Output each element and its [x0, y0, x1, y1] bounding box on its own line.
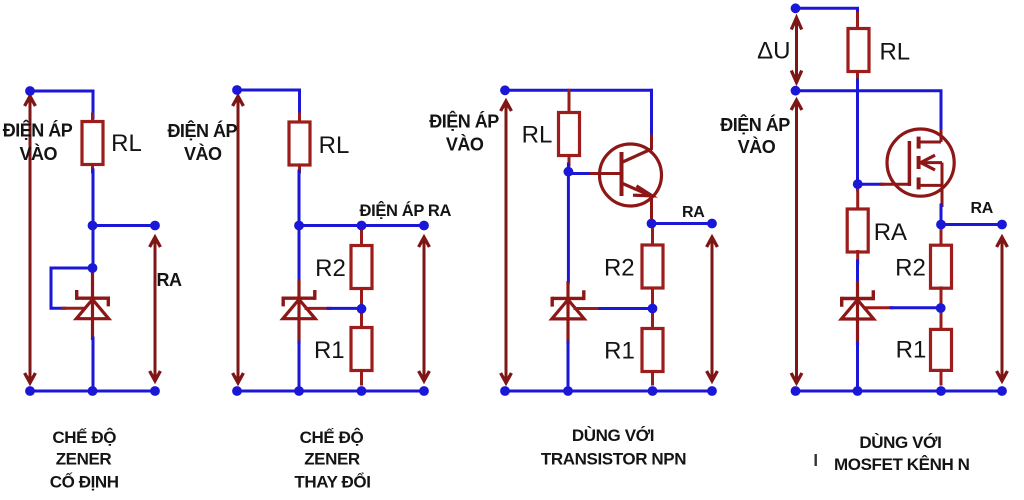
svg-text:RA: RA: [874, 219, 907, 246]
wire lead: RL bottom (circuit 1): [91, 165, 94, 173]
node: circuit 4 R2/R1 junction: [936, 303, 946, 313]
wire stub: zener to divider (circuit 4): [866, 306, 892, 309]
node: circuit 4 top left: [791, 3, 801, 13]
caption line 1 (circuit 3): [572, 426, 654, 445]
svg-text:ĐIỆN ÁP: ĐIỆN ÁP: [720, 114, 790, 135]
node: circuit 4 bottom zener: [853, 386, 863, 396]
wire: gate wire blue part (circuit 4): [858, 183, 882, 186]
wire lead: R2 top (circuit 2): [360, 229, 363, 246]
wire: circuit 1 bottom rail: [30, 390, 155, 393]
svg-text:CHẾ ĐỘ: CHẾ ĐỘ: [300, 428, 364, 447]
wire: divider tap to zener (circuit 4): [891, 306, 941, 309]
node: circuit 3 output right: [707, 219, 717, 229]
resistor R2 (circuit 3): [642, 245, 663, 288]
wire lead: R2 top (circuit 4): [940, 228, 943, 245]
node: circuit 3 input top: [500, 85, 510, 95]
node: circuit 3 emitter/output junction: [647, 219, 657, 229]
wire: circuit 1 top rail: [30, 91, 93, 118]
wire: circuit 4 RA to zener: [856, 261, 859, 282]
label R1 (circuit 4): [896, 336, 927, 363]
wire lead: RL top (circuit 4): [856, 13, 859, 29]
wire: circuit 1 zener to ground rail: [92, 338, 95, 391]
label R2 (circuit 2): [315, 255, 346, 282]
label DIEN AP RA (circuit 2): [360, 201, 452, 220]
svg-text:RL: RL: [111, 130, 142, 157]
wire lead: R1 bottom (circuit 3): [651, 372, 654, 385]
svg-text:VÀO: VÀO: [446, 133, 484, 154]
wire stub: zener to divider (circuit 2): [306, 307, 330, 310]
svg-text:RA: RA: [157, 270, 182, 290]
zener diode D1 (circuit 1): [76, 270, 108, 340]
wire lead: R1 top (circuit 4): [940, 308, 943, 329]
arrow: output voltage span (circuit 2): [419, 237, 430, 381]
svg-text:R1: R1: [896, 336, 927, 363]
arrow: output voltage span (circuit 4): [997, 237, 1008, 381]
caption line 2 (circuit 3): [541, 450, 686, 469]
wire: circuit 2 zener to ground: [298, 342, 301, 391]
label VAO (circuit 2): [184, 143, 222, 164]
svg-text:RA: RA: [970, 200, 993, 217]
label R2 (circuit 3): [604, 255, 635, 282]
resistor RL (circuit 2): [289, 122, 310, 165]
wire lead: RL bottom (circuit 4): [856, 72, 859, 81]
zener diode D1 (circuit 4): [841, 281, 873, 345]
resistor R2 (circuit 4): [931, 245, 952, 288]
wire: divider tap to zener (circuit 2): [328, 307, 362, 310]
wire: circuit 3 collector to rail: [650, 90, 653, 133]
resistor RA (circuit 4): [847, 209, 868, 252]
svg-text:R2: R2: [604, 255, 635, 282]
wire lead: RL bottom (circuit 2): [298, 165, 301, 172]
node: circuit 2 bottom right: [419, 386, 429, 396]
wire: circuit 4 second rail: [796, 91, 942, 131]
label DIEN AP (circuit 2): [167, 120, 237, 141]
node: circuit 2 input top: [232, 85, 242, 95]
resistor R1 (circuit 2): [351, 328, 372, 371]
wire lead: R1 top (circuit 3): [651, 309, 654, 329]
svg-text:VÀO: VÀO: [184, 143, 222, 164]
svg-text:R1: R1: [604, 338, 635, 365]
svg-text:MOSFET KÊNH N: MOSFET KÊNH N: [834, 455, 970, 474]
svg-text:ĐIỆN ÁP RA: ĐIỆN ÁP RA: [360, 201, 452, 220]
caption line 3 (circuit 1): [50, 472, 119, 492]
wire: divider tap to zener (circuit 3): [600, 307, 653, 310]
wire: circuit 4 source to output: [940, 205, 943, 225]
label DIEN AP (circuit 4): [720, 114, 790, 135]
node: circuit 4 bottom far-left: [791, 386, 801, 396]
node: circuit 3 R2/R1 junction: [648, 304, 658, 314]
wire lead: R2 bottom (circuit 4): [940, 288, 943, 308]
label delta-U (circuit 4): [757, 38, 790, 65]
node: circuit 4 bottom right: [997, 386, 1007, 396]
node: circuit 4 source/output junction: [936, 220, 946, 230]
wire: circuit 1 output rail: [93, 224, 155, 227]
resistor RL (circuit 3): [559, 113, 580, 156]
svg-text:ZENER: ZENER: [304, 450, 360, 469]
wire lead: RL top (circuit 3): [568, 90, 571, 112]
svg-text:RL: RL: [879, 39, 910, 66]
wire: base wire blue part (circuit 3): [568, 172, 592, 175]
wire lead: RL bottom (circuit 3): [568, 156, 571, 166]
wire stub: zener to divider (circuit 3): [575, 307, 601, 310]
label RA output (circuit 4): [970, 200, 993, 217]
wire: circuit 1 center vertical: [92, 170, 95, 270]
arrow: input voltage span (circuit 4): [791, 100, 802, 383]
wire lead: RL top (circuit 2): [298, 114, 301, 122]
MOSFET Q1 (circuit 4, N-channel): [880, 129, 954, 207]
node: circuit 2 bottom zener: [294, 386, 304, 396]
svg-text:VÀO: VÀO: [738, 136, 776, 157]
svg-text:VÀO: VÀO: [19, 143, 57, 164]
arrow: input voltage span (circuit 3): [501, 101, 512, 383]
stray tick mark left of circuit 4 caption: [815, 454, 817, 466]
label RA (circuit 3): [682, 204, 705, 221]
node: circuit 2 output right: [419, 221, 429, 231]
caption line 1 (circuit 2): [300, 428, 364, 447]
svg-text:R2: R2: [895, 255, 926, 282]
caption line 2 (circuit 4): [834, 455, 970, 474]
svg-text:RL: RL: [319, 132, 350, 159]
label R1 (circuit 2): [314, 337, 345, 364]
wire lead: R1 bottom (circuit 4): [940, 370, 943, 384]
node: circuit 2 bottom far-left: [232, 386, 242, 396]
svg-text:RA: RA: [682, 204, 705, 221]
svg-text:ΔU: ΔU: [757, 38, 790, 65]
node: circuit 2 center/output junction: [294, 221, 304, 231]
svg-text:THAY ĐỔI: THAY ĐỔI: [294, 473, 370, 492]
wire: circuit 4 output rail: [941, 223, 1002, 226]
node: circuit 3 bottom R1: [648, 386, 658, 396]
node: circuit 1 center/output junction: [88, 221, 98, 231]
arrow: delta-U span (circuit 4): [791, 18, 801, 83]
node: circuit 3 base junction: [564, 167, 574, 177]
label RL (circuit 3): [522, 121, 553, 148]
arrow: input voltage span (circuit 2): [233, 96, 244, 383]
wire: circuit 4 top rail: [796, 8, 858, 16]
arrow: output voltage span RA (circuit 1): [150, 237, 161, 381]
wire lead: R2 bottom (circuit 3): [651, 288, 654, 309]
label DIEN AP (circuit 1): [3, 120, 73, 141]
resistor R1 (circuit 4): [931, 329, 952, 370]
caption line 3 (circuit 2): [294, 473, 370, 492]
arrow: output voltage span (circuit 3): [707, 237, 718, 381]
wire lead: RA resistor bottom (circuit 4): [856, 252, 859, 264]
resistor R1 (circuit 3): [642, 329, 663, 372]
wire: circuit 2 bottom rail: [237, 390, 424, 393]
caption line 1 (circuit 4): [859, 433, 941, 452]
wire: circuit 3 zener to ground: [567, 342, 570, 391]
label RL (circuit 2): [319, 132, 350, 159]
svg-text:ĐIỆN ÁP: ĐIỆN ÁP: [429, 111, 499, 132]
wire: circuit 3 top rail: [505, 89, 652, 92]
node: circuit 3 bottom zener: [563, 386, 573, 396]
wire stub: loop to zener D1 (circuit 1): [63, 307, 85, 310]
caption line 2 (circuit 1): [56, 450, 112, 469]
caption line 2 (circuit 2): [304, 450, 360, 469]
node: circuit 4 output right: [997, 220, 1007, 230]
label RA resistor (circuit 4): [874, 219, 907, 246]
wire: circuit 2 output rail: [299, 224, 424, 227]
node: circuit 2 bottom R1: [357, 386, 367, 396]
wire lead: R2 top (circuit 3): [651, 227, 654, 245]
wire lead: RA resistor top (circuit 4): [856, 190, 859, 209]
label VAO (circuit 3): [446, 133, 484, 154]
svg-text:R1: R1: [314, 337, 345, 364]
resistor RL (circuit 1): [82, 122, 103, 165]
node: circuit 3 bottom right: [707, 386, 717, 396]
node: circuit 4 bottom R1: [936, 386, 946, 396]
label R2 (circuit 4): [895, 255, 926, 282]
svg-text:RL: RL: [522, 121, 553, 148]
wire: circuit 4 RL to gate vertical: [856, 80, 859, 190]
zener diode D1 (circuit 3): [552, 281, 584, 344]
node: circuit 1 output right: [150, 221, 160, 231]
wire: circuit 3 bottom rail: [505, 390, 712, 393]
label VAO (circuit 4): [738, 136, 776, 157]
wire lead: R1 top (circuit 2): [360, 309, 363, 328]
wire lead: R1 bottom (circuit 2): [360, 371, 363, 385]
node: circuit 1 input top: [25, 86, 35, 96]
svg-text:CHẾ ĐỘ: CHẾ ĐỘ: [52, 428, 116, 447]
svg-text:ZENER: ZENER: [56, 450, 112, 469]
svg-text:DÙNG VỚI: DÙNG VỚI: [572, 426, 654, 445]
wire: circuit 4 bottom rail: [796, 390, 1003, 393]
wire lead: R2 bottom (circuit 2): [360, 289, 363, 310]
label R1 (circuit 3): [604, 338, 635, 365]
wire: circuit 4 zener to ground: [856, 343, 859, 391]
transistor Q1 (circuit 3, NPN): [590, 131, 662, 224]
node: circuit 1 bottom left: [25, 386, 35, 396]
wire: circuit 1 feedback loop: [51, 268, 92, 308]
resistor R2 (circuit 2): [351, 246, 372, 289]
svg-text:TRANSISTOR NPN: TRANSISTOR NPN: [541, 450, 686, 469]
wire: circuit 2 top rail: [237, 90, 300, 118]
node: circuit 1 bottom right: [150, 386, 160, 396]
label RL (circuit 1): [111, 130, 142, 157]
resistor RL (circuit 4): [848, 29, 869, 72]
wire: circuit 3 output rail: [652, 222, 713, 225]
label VAO (circuit 1): [19, 143, 57, 164]
wire: circuit 3 RL to zener vertical: [567, 164, 570, 282]
svg-text:CỐ ĐỊNH: CỐ ĐỊNH: [50, 472, 119, 492]
svg-text:ĐIỆN ÁP: ĐIỆN ÁP: [3, 120, 73, 141]
node: circuit 3 bottom far-left: [500, 386, 510, 396]
svg-text:ĐIỆN ÁP: ĐIỆN ÁP: [167, 120, 237, 141]
zener diode D1 (circuit 2): [283, 279, 315, 344]
svg-text:DÙNG VỚI: DÙNG VỚI: [859, 433, 941, 452]
node: circuit 1 bottom center: [88, 386, 98, 396]
wire lead: RL top (circuit 1): [91, 114, 94, 122]
wire: circuit 2 center vertical: [298, 171, 301, 280]
arrow: input voltage span (circuit 1): [25, 96, 36, 383]
node: circuit 2 R2/R1 junction: [357, 304, 367, 314]
label RA (circuit 1): [157, 270, 182, 290]
label DIEN AP (circuit 3): [429, 111, 499, 132]
node: circuit 4 input mid: [791, 86, 801, 96]
svg-text:R2: R2: [315, 255, 346, 282]
node: circuit 4 gate junction: [853, 179, 863, 189]
node: circuit 2 R2 top junction: [357, 221, 367, 231]
caption line 1 (circuit 1): [52, 428, 116, 447]
label RL (circuit 4): [879, 39, 910, 66]
node: circuit 1 zener tap: [88, 263, 98, 273]
